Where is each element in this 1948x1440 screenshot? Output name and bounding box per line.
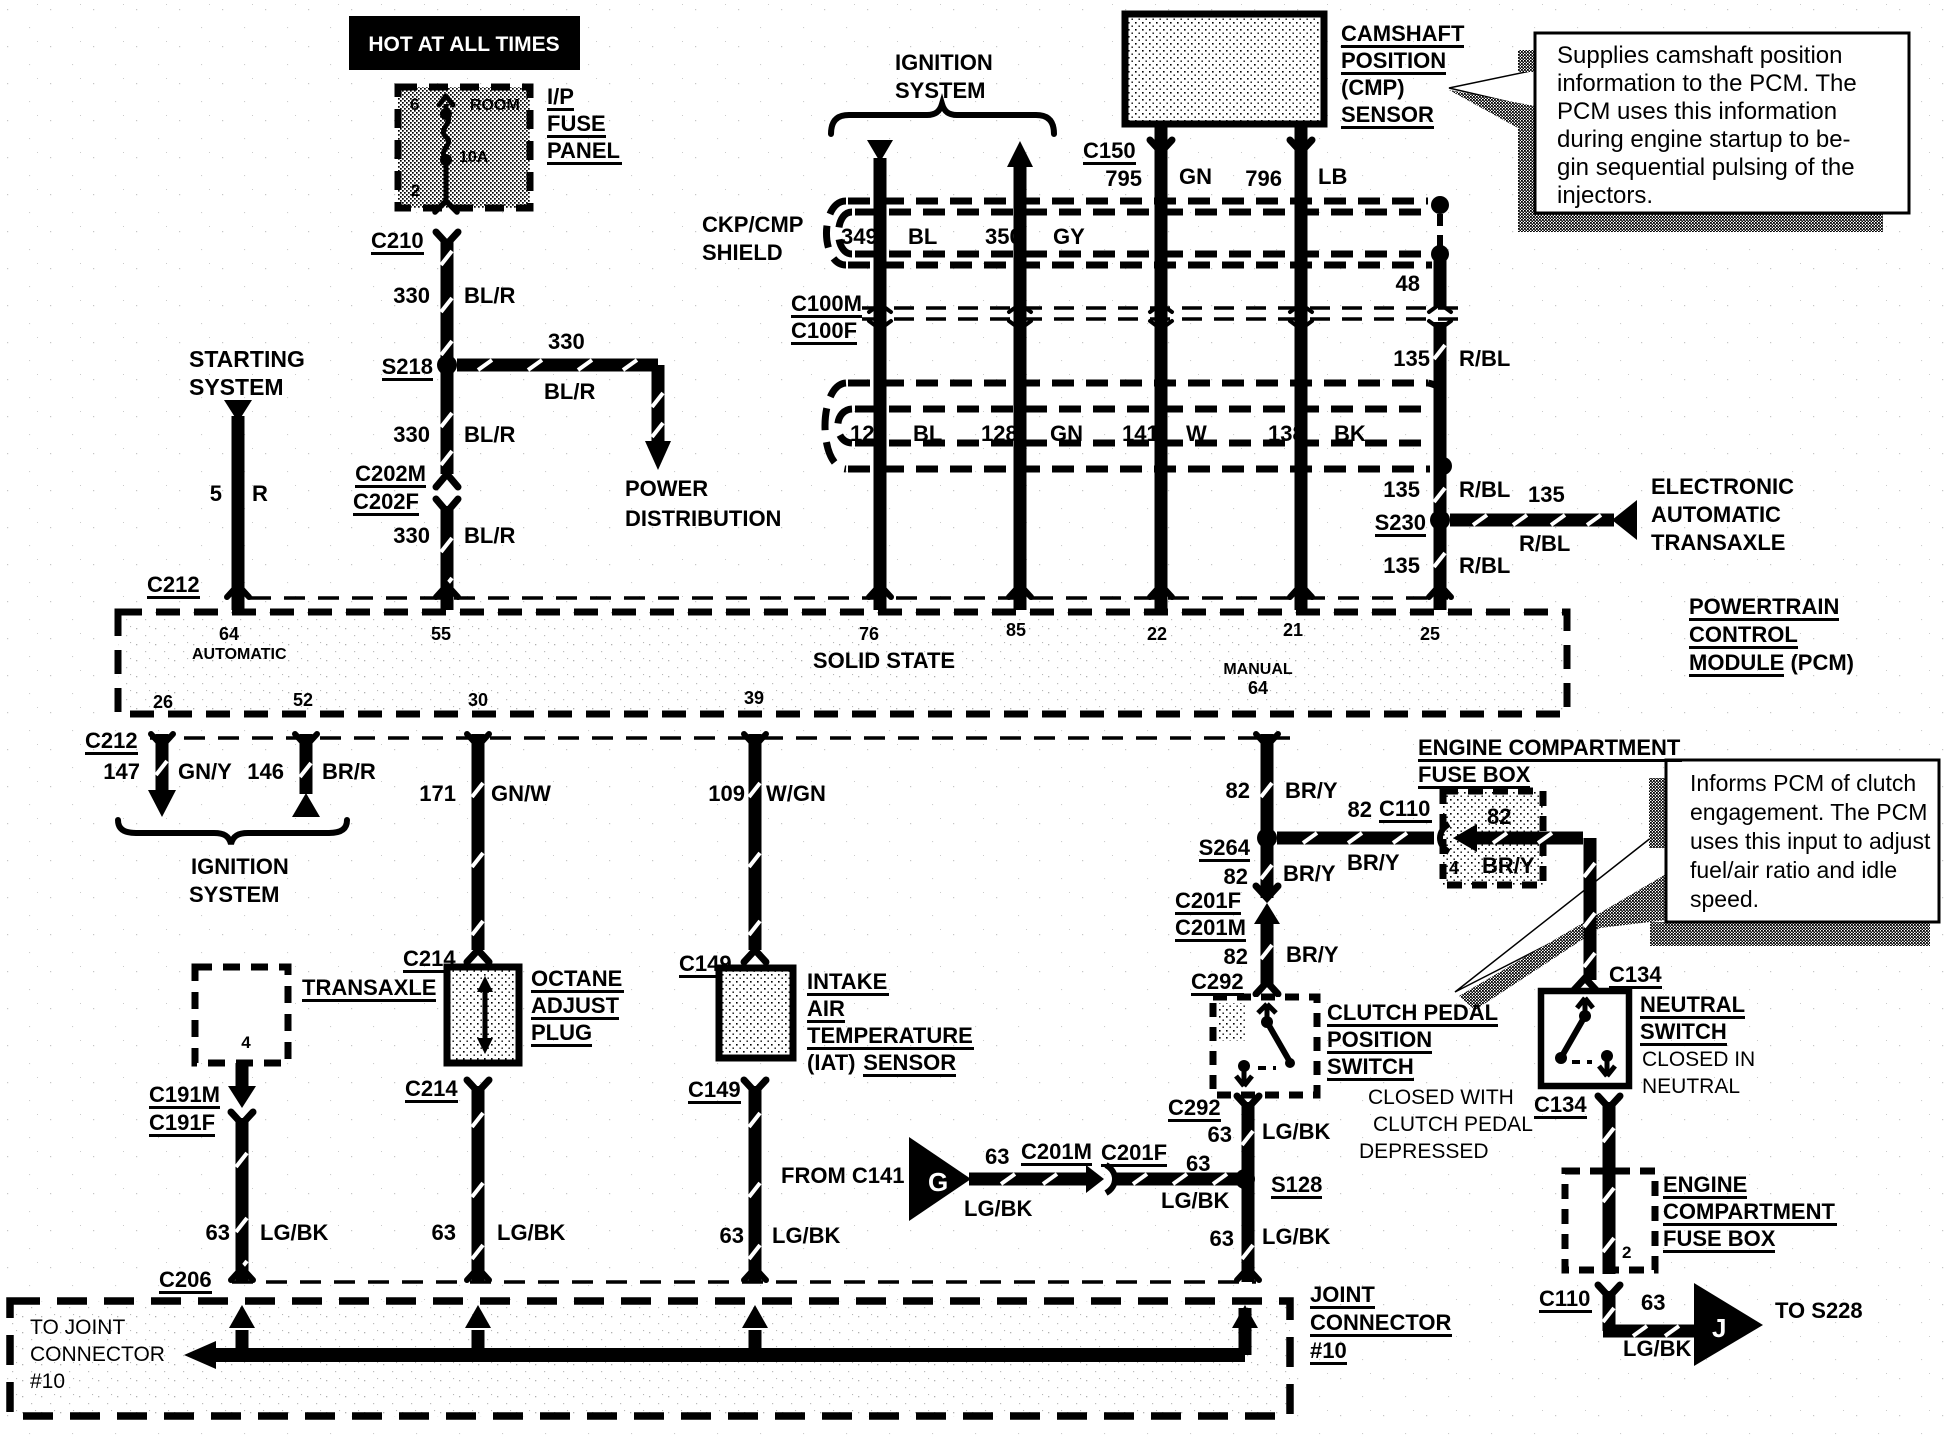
svg-text:82: 82 [1348,797,1372,822]
wire 63 LG/BK C149 to C206 [749,1086,762,1282]
svg-text:SENSOR: SENSOR [1341,102,1434,127]
svg-text:BL/R: BL/R [464,523,515,548]
svg-text:63: 63 [1186,1151,1210,1176]
engine compartment fuse box 2 [1565,1171,1655,1270]
svg-text:POWER: POWER [625,476,708,501]
svg-text:30: 30 [468,690,488,710]
svg-text:BL/R: BL/R [464,422,515,447]
svg-text:LG/BK: LG/BK [1623,1336,1692,1361]
svg-text:109: 109 [708,781,745,806]
svg-text:W/GN: W/GN [766,781,826,806]
wire transaxle to C191 [236,1063,249,1088]
wire 63 LG/BK C214 to C206 [472,1086,485,1282]
svg-text:NEUTRAL: NEUTRAL [1642,1075,1740,1098]
ground G arrow from C141 [909,1137,971,1221]
intake air temperature IAT sensor box [719,968,793,1058]
svg-text:C191F: C191F [149,1110,215,1135]
svg-text:GN/Y: GN/Y [178,759,232,784]
svg-text:DISTRIBUTION: DISTRIBUTION [625,506,781,531]
svg-text:BL/R: BL/R [464,283,515,308]
svg-text:(CMP): (CMP) [1341,75,1405,100]
svg-text:350: 350 [985,224,1022,249]
joint connector bus wire [205,1348,1245,1362]
svg-text:LG/BK: LG/BK [1262,1224,1331,1249]
svg-text:uses this input to adjust: uses this input to adjust [1690,828,1931,854]
svg-text:63: 63 [720,1223,744,1248]
svg-text:engagement. The PCM: engagement. The PCM [1690,799,1927,825]
svg-text:injectors.: injectors. [1557,182,1653,209]
svg-text:Informs PCM of clutch: Informs PCM of clutch [1690,770,1916,796]
octane adjust plug box [447,967,519,1063]
wire 82 BR/Y S264 to C201F [1261,838,1274,898]
svg-text:SWITCH: SWITCH [1640,1019,1727,1044]
svg-text:R/BL: R/BL [1459,346,1510,371]
svg-text:NEUTRAL: NEUTRAL [1640,992,1745,1017]
svg-text:2: 2 [411,181,420,200]
svg-text:BR/Y: BR/Y [1286,942,1339,967]
off page arrow J to S228 [1694,1283,1763,1366]
svg-text:GN/W: GN/W [491,781,551,806]
wire 63 LG/BK C292 to S128 [1242,1102,1255,1179]
svg-text:FROM C141: FROM C141 [781,1163,904,1188]
svg-text:C212: C212 [147,572,200,597]
svg-text:C191M: C191M [149,1082,220,1107]
wire 135 R/BL S230 to electronic automatic transaxle [1450,514,1614,527]
wire 63 LG/BK C201F to S128 [1114,1173,1245,1186]
transaxle box [195,967,288,1063]
svg-text:330: 330 [393,283,430,308]
svg-text:STARTING: STARTING [189,346,305,372]
shield drain dot [1434,457,1452,475]
I/P fuse panel box [398,87,530,208]
svg-text:FUSE BOX: FUSE BOX [1663,1226,1776,1251]
svg-text:(PCM): (PCM) [1790,650,1854,675]
wire 330 BL/R fuse panel to S218 [441,240,454,365]
svg-text:BL: BL [913,421,942,446]
svg-text:C212: C212 [85,728,138,753]
shield loop around 127 128 141 138 wires [848,380,1428,387]
arrow to electronic automatic transaxle [1612,500,1637,540]
svg-text:SYSTEM: SYSTEM [189,374,284,400]
svg-text:ENGINE COMPARTMENT: ENGINE COMPARTMENT [1418,735,1681,760]
powertrain control module PCM box [118,612,1567,714]
svg-text:GN: GN [1179,164,1212,189]
svg-text:39: 39 [744,688,764,708]
svg-text:LG/BK: LG/BK [1262,1119,1331,1144]
svg-text:I/P: I/P [547,84,574,109]
svg-text:IGNITION: IGNITION [191,854,289,879]
svg-text:S218: S218 [382,354,433,379]
svg-text:82: 82 [1224,864,1248,889]
shield loop around 349 350 wires [848,198,1428,205]
svg-text:DEPRESSED: DEPRESSED [1359,1140,1489,1163]
svg-text:135: 135 [1383,553,1420,578]
svg-text:330: 330 [393,422,430,447]
wire 795 GN CMP to PCM pin 22 [1155,126,1168,610]
svg-text:CONNECTOR: CONNECTOR [30,1343,165,1366]
wire 63 LG/BK S128 to C206 [1242,1179,1255,1282]
svg-text:CAMSHAFT: CAMSHAFT [1341,21,1465,46]
svg-text:C110: C110 [1539,1286,1590,1311]
arrow to power distribution [645,441,671,470]
svg-text:R: R [252,481,268,506]
svg-text:4: 4 [241,1033,251,1052]
svg-text:76: 76 [859,624,879,644]
svg-text:PLUG: PLUG [531,1020,592,1045]
svg-text:BR/Y: BR/Y [1347,850,1400,875]
svg-text:LG/BK: LG/BK [260,1220,329,1245]
svg-text:171: 171 [419,781,456,806]
svg-text:795: 795 [1105,166,1142,191]
brace ignition system bottom [118,820,347,844]
svg-text:2: 2 [1622,1243,1631,1262]
svg-text:(IAT): (IAT) [807,1050,855,1075]
svg-text:S230: S230 [1375,510,1426,535]
wire 5 R to PCM pin 64 [232,416,245,610]
svg-text:C201F: C201F [1175,888,1241,913]
engine compartment fuse box [1443,791,1543,885]
svg-text:C100M: C100M [791,291,862,316]
arrow up ignition wire [1007,141,1033,167]
wire 171 GN/W PCM pin 30 to C214 [472,734,485,950]
wire 330 BL/R C202 to PCM pin 55 [441,506,454,610]
svg-text:FUSE BOX: FUSE BOX [1418,762,1531,787]
svg-text:AIR: AIR [807,996,845,1021]
svg-text:4: 4 [1449,858,1459,878]
wire C134 to engine compartment fuse box 2 [1603,1102,1616,1175]
svg-text:LG/BK: LG/BK [964,1196,1033,1221]
svg-text:C292: C292 [1168,1095,1221,1120]
svg-text:146: 146 [247,759,284,784]
svg-text:FUSE: FUSE [547,111,606,136]
svg-text:138: 138 [1268,421,1305,446]
svg-text:330: 330 [393,523,430,548]
svg-text:CONNECTOR: CONNECTOR [1310,1310,1451,1335]
svg-text:W: W [1186,421,1207,446]
svg-text:G: G [928,1167,948,1197]
svg-text:C100F: C100F [791,318,857,343]
wire 135 R/BL S230 to PCM pin 25 [1434,520,1447,610]
svg-text:128: 128 [981,421,1018,446]
svg-text:C206: C206 [159,1267,212,1292]
svg-text:TRANSAXLE: TRANSAXLE [302,975,436,1000]
svg-text:BR/Y: BR/Y [1283,861,1336,886]
svg-text:MANUAL: MANUAL [1223,661,1293,678]
wire 63 LG/BK G to C201M [969,1173,1086,1186]
svg-text:SWITCH: SWITCH [1327,1054,1414,1079]
svg-text:796: 796 [1245,166,1282,191]
joint connector riser arrows [236,1330,249,1355]
svg-text:CKP/CMP: CKP/CMP [702,212,803,237]
neutral switch contacts [1577,998,1593,1016]
power feed label HOT AT ALL TIMES [349,16,580,70]
svg-text:10A: 10A [459,149,489,166]
svg-text:HOT AT ALL TIMES: HOT AT ALL TIMES [368,33,559,56]
splice S128 [1235,1169,1255,1189]
svg-text:LG/BK: LG/BK [497,1220,566,1245]
svg-text:BR/R: BR/R [322,759,376,784]
svg-text:BR/Y: BR/Y [1482,853,1535,878]
svg-text:ROOM: ROOM [470,97,520,114]
svg-text:SYSTEM: SYSTEM [189,882,279,907]
fuse ROOM 10A [444,104,449,204]
svg-text:C292: C292 [1191,969,1244,994]
svg-text:INTAKE: INTAKE [807,969,887,994]
svg-text:25: 25 [1420,624,1440,644]
svg-text:CONTROL: CONTROL [1689,622,1798,647]
svg-text:BL: BL [908,224,937,249]
svg-text:IGNITION: IGNITION [895,50,993,75]
svg-text:AUTOMATIC: AUTOMATIC [192,646,287,663]
svg-text:22: 22 [1147,624,1167,644]
svg-text:TO JOINT: TO JOINT [30,1316,125,1339]
svg-text:LG/BK: LG/BK [1161,1188,1230,1213]
wire 82 BR/Y fuse box to C134 [1584,838,1597,980]
svg-text:PANEL: PANEL [547,138,620,163]
svg-text:82: 82 [1487,804,1511,829]
svg-text:SENSOR: SENSOR [863,1050,956,1075]
svg-text:LG/BK: LG/BK [772,1223,841,1248]
svg-text:48: 48 [1396,271,1420,296]
svg-text:COMPARTMENT: COMPARTMENT [1663,1199,1835,1224]
svg-text:C202F: C202F [353,489,419,514]
wire PCM pin 85 to ignition system [1014,163,1027,610]
wire 109 W/GN PCM pin 39 to C149 [749,734,762,950]
svg-text:S128: S128 [1271,1172,1322,1197]
svg-text:21: 21 [1283,620,1303,640]
svg-text:127: 127 [850,421,887,446]
wire 135 R/BL shield to S230 [1434,385,1447,512]
wire 63 LG/BK C110 to S228 [1603,1291,1616,1331]
wire inside fuse box 2 [1603,1171,1616,1274]
svg-text:C134: C134 [1534,1092,1587,1117]
svg-text:during engine startup to be-: during engine startup to be- [1557,126,1851,153]
svg-text:TRANSAXLE: TRANSAXLE [1651,530,1785,555]
svg-text:ENGINE: ENGINE [1663,1172,1747,1197]
svg-text:63: 63 [432,1220,456,1245]
shield drain wire 48 [1431,196,1449,214]
svg-text:CLOSED IN: CLOSED IN [1642,1048,1755,1071]
svg-text:5: 5 [210,481,222,506]
svg-text:LB: LB [1318,164,1347,189]
svg-text:6: 6 [410,95,419,114]
svg-text:26: 26 [153,692,173,712]
svg-text:BR/Y: BR/Y [1285,778,1338,803]
svg-text:BK: BK [1334,421,1366,446]
svg-text:MODULE: MODULE [1689,650,1784,675]
svg-text:Supplies camshaft position: Supplies camshaft position [1557,42,1843,69]
wire 82 BR/Y PCM pin 64 to S264 [1261,734,1274,838]
wire 82 BR/Y inside fuse box [1465,832,1583,845]
svg-text:C149: C149 [688,1077,741,1102]
camshaft position sensor box [1125,14,1324,124]
svg-text:POSITION: POSITION [1341,48,1446,73]
svg-text:R/BL: R/BL [1459,553,1510,578]
svg-text:63: 63 [206,1220,230,1245]
svg-text:SHIELD: SHIELD [702,240,783,265]
svg-text:135: 135 [1528,482,1565,507]
svg-text:85: 85 [1006,620,1026,640]
svg-text:fuel/air ratio and idle: fuel/air ratio and idle [1690,857,1897,883]
svg-text:CLUTCH PEDAL: CLUTCH PEDAL [1373,1113,1533,1136]
svg-text:TEMPERATURE: TEMPERATURE [807,1023,973,1048]
svg-text:POWERTRAIN: POWERTRAIN [1689,594,1839,619]
svg-text:JOINT: JOINT [1310,1282,1375,1307]
svg-text:C201M: C201M [1021,1139,1092,1164]
svg-text:AUTOMATIC: AUTOMATIC [1651,502,1781,527]
svg-text:147: 147 [103,759,140,784]
svg-text:GN: GN [1050,421,1083,446]
wire PCM pin 76 to ignition system [874,158,887,610]
wire 82 BR/Y S264 to fuse box [1277,832,1434,845]
arrow from starting system [224,400,252,422]
joint connector #10 box [10,1301,1290,1416]
svg-text:CLUTCH PEDAL: CLUTCH PEDAL [1327,1000,1498,1025]
callout note clutch engagement [1455,826,1666,992]
svg-text:C201M: C201M [1175,915,1246,940]
svg-text:349: 349 [841,224,878,249]
wire 796 LB CMP to PCM pin 21 [1295,126,1308,610]
svg-text:55: 55 [431,624,451,644]
svg-text:82: 82 [1226,778,1250,803]
wire 330 BL/R S218 to power distribution [457,359,658,372]
svg-text:C202M: C202M [355,461,426,486]
svg-text:64: 64 [219,624,239,644]
svg-text:gin sequential pulsing of the: gin sequential pulsing of the [1557,154,1855,181]
svg-text:C110: C110 [1379,796,1430,821]
svg-text:POSITION: POSITION [1327,1027,1432,1052]
svg-text:82: 82 [1224,944,1248,969]
svg-text:63: 63 [1641,1290,1665,1315]
svg-text:J: J [1712,1313,1726,1343]
svg-text:SOLID STATE: SOLID STATE [813,648,955,673]
brace ignition system [831,104,1054,134]
svg-text:ELECTRONIC: ELECTRONIC [1651,474,1794,499]
svg-text:141: 141 [1122,421,1159,446]
svg-text:#10: #10 [1310,1338,1347,1363]
callout note camshaft position [1449,70,1535,108]
wire 330 BL/R S218 to C202 [441,365,454,474]
wire 147 GN/Y to ignition system [156,734,169,792]
clutch pedal position switch box [1213,997,1317,1095]
svg-text:C134: C134 [1609,962,1662,987]
svg-text:SYSTEM: SYSTEM [895,78,985,103]
svg-text:135: 135 [1393,346,1430,371]
svg-text:ADJUST: ADJUST [531,993,620,1018]
svg-text:C210: C210 [371,228,424,253]
wire 82 BR/Y C201M to C292 [1261,916,1274,984]
svg-text:TO S228: TO S228 [1775,1298,1863,1323]
svg-text:PCM uses this information: PCM uses this information [1557,98,1837,125]
svg-text:330: 330 [548,329,585,354]
svg-text:63: 63 [985,1144,1009,1169]
svg-text:63: 63 [1208,1122,1232,1147]
svg-text:#10: #10 [30,1370,65,1393]
svg-text:C150: C150 [1083,138,1136,163]
svg-text:CLOSED WITH: CLOSED WITH [1368,1086,1514,1109]
svg-text:GY: GY [1053,224,1085,249]
svg-text:C201F: C201F [1101,1140,1167,1165]
svg-text:52: 52 [293,690,313,710]
wire 63 LG/BK C191 to C206 [236,1118,249,1282]
neutral switch box [1541,991,1629,1086]
svg-text:OCTANE: OCTANE [531,966,622,991]
svg-text:information to the PCM. The: information to the PCM. The [1557,70,1857,97]
svg-text:R/BL: R/BL [1459,477,1510,502]
svg-text:S264: S264 [1199,835,1251,860]
svg-text:BL/R: BL/R [544,379,595,404]
wire 135 R/BL below C100F [1434,322,1447,385]
wire 146 BR/R from ignition system [300,734,313,794]
svg-text:C214: C214 [405,1076,458,1101]
svg-text:speed.: speed. [1690,886,1759,912]
clutch switch contacts [1258,1004,1276,1022]
svg-text:R/BL: R/BL [1519,531,1570,556]
svg-text:63: 63 [1210,1226,1234,1251]
arrow down ignition wire [867,140,893,162]
svg-text:135: 135 [1383,477,1420,502]
svg-text:64: 64 [1248,678,1268,698]
